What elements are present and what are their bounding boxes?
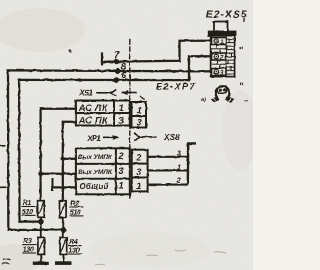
XS8 pin boxes <box>132 150 148 192</box>
ground R4 <box>55 261 71 265</box>
label R2 510 <box>70 200 81 217</box>
connector E2-XS5 <box>206 9 248 76</box>
pin 2 box <box>212 53 227 60</box>
scan grain overlay <box>0 0 253 270</box>
connector body <box>211 36 235 77</box>
wire rail to R1 bottom <box>20 220 41 222</box>
dashed mating line <box>129 40 131 198</box>
resistor R1 <box>38 201 45 238</box>
arrow symbol XP1 <box>103 135 119 140</box>
label R3 130 <box>23 237 34 254</box>
faint bottom specks <box>95 250 226 265</box>
wire AC PK row to second vertical <box>63 122 76 201</box>
node branch junction <box>38 172 43 177</box>
wire XS8 pin1 to bundle <box>148 184 188 186</box>
bottom left squiggle <box>2 259 11 264</box>
node pin6 junction dot <box>114 77 120 83</box>
wire pin8 to XS5 pin3 <box>8 70 213 71</box>
node pin8 junction dot <box>115 68 121 74</box>
node R1 bottom junction <box>38 219 44 225</box>
connector table XP1 <box>76 148 130 194</box>
wire riser to XS5 pin2 <box>189 56 213 80</box>
socket symbol XS8 <box>134 133 157 140</box>
resistor R3 <box>38 237 45 261</box>
wire Obshchiy terminal tick <box>52 179 54 191</box>
node branch junction <box>61 157 66 162</box>
label R4 130 <box>68 238 79 255</box>
left edge dash <box>0 145 6 147</box>
wire branch to Vyh UMPK row <box>41 173 76 175</box>
arrow symbol E2-XP7 <box>121 90 137 95</box>
wire left vertical from pin8 <box>7 71 10 230</box>
E2-XP7 pin boxes <box>132 102 147 128</box>
node R2 bottom junction <box>61 227 67 233</box>
round connector rear view <box>211 86 235 103</box>
label R1 510 <box>22 199 33 216</box>
wire rail to R2 bottom <box>8 229 63 231</box>
wire branch to Vyh UMLK row <box>63 158 76 160</box>
wire left vertical from pin6 <box>18 80 21 222</box>
resistor R4 <box>60 237 67 261</box>
wire Obshchiy to table <box>53 186 76 188</box>
wire XS8 pin2 to bundle <box>148 156 188 158</box>
resistor R2 <box>60 201 67 238</box>
wire pin7 to XS5 pin1 <box>102 41 213 62</box>
pin 1 box <box>212 38 227 45</box>
pin 3 box <box>212 68 227 75</box>
connector cap <box>214 22 228 32</box>
socket symbol XS1 <box>97 89 117 96</box>
stray mark <box>140 97 145 100</box>
label tail under 5 <box>243 19 246 22</box>
wire AC LK row to left vertical <box>41 109 76 201</box>
faint dash <box>245 100 249 103</box>
wire pin7 left terminal tick <box>101 54 103 64</box>
wire cable bundle riser <box>188 143 196 184</box>
body hatch bricks <box>212 36 235 77</box>
connector table XS1 <box>76 101 130 126</box>
connector flange bar <box>209 31 236 35</box>
node pin7 junction dot <box>114 59 120 65</box>
wire pin6 to riser <box>19 79 189 81</box>
wire XS8 pin3 to bundle <box>148 169 188 171</box>
ground R3 <box>33 261 49 265</box>
left edge dash lower <box>0 186 6 188</box>
